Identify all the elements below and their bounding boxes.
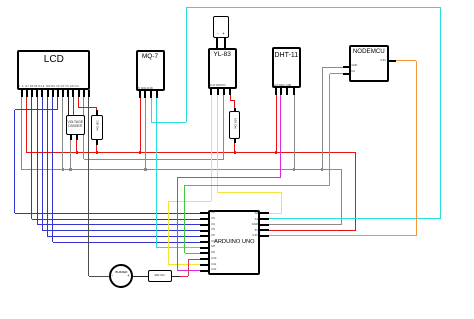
pin labels DHT-11 [274,85,292,87]
label buzzer minus [112,274,114,279]
label buzzer plus [127,274,130,279]
wire LCD pin9 gray to GND bus [62,97,63,170]
pin label Arduino A1 [245,218,258,221]
pin stub Arduino GND [260,224,269,226]
pin stub resistor 100 top [96,110,98,116]
pin stub DHT-11 pin1 [275,88,277,95]
LCD display module [17,50,90,90]
wire MQ-7 GND gray to GND bus [145,98,146,170]
label ARDUINO UNO [208,240,260,246]
label MQ-7 [136,54,165,61]
resistor 10K Ohm [229,111,241,139]
label rain plate polarity [214,32,228,37]
pin stub voltage divider left [70,134,72,140]
pin label Arduino D7 [212,241,215,244]
wire MQ-7 D0 cyan to Arduino D8 [156,98,157,248]
pin stub Arduino 3.3V [260,235,269,237]
wire DHT-11 VCC red to red bus [276,95,277,153]
pin label Arduino 3.3V [245,234,258,237]
pin stub NODEMCU GND [343,66,350,68]
resistor 220 Ohm [148,270,172,282]
label resistor 100 Ohm [96,117,99,135]
wire LCD pin8 to Arduino D2 (blue detour) [57,97,58,110]
junction 5 [275,151,277,153]
wire gray GND bus [21,97,22,170]
pin stub DHT-11 pin2 [280,88,282,95]
label resistor 10K Ohm [234,115,237,133]
pin label Arduino A0 [245,212,258,215]
pin stub MQ-7 pin3 [150,91,152,98]
pin label Arduino 5V [245,229,258,232]
YL-83 rain sensor plate [213,16,229,37]
pin stub NODEMCU 3.3V [389,60,397,62]
wire red 5V bus [26,97,27,153]
pin stub LCD pin1 [21,90,23,97]
wire resistor 100 to red bus [96,140,97,153]
wire resistor 220 crimson to Arduino D10 [172,276,180,277]
pin stub LCD pin5 [41,90,43,97]
junction 3 [139,151,141,153]
pin stub LCD pin12 [78,90,80,97]
pin stub Arduino D6 [200,235,208,237]
pin stub Arduino D9 [200,252,208,254]
pin stub rain plate 2 [224,38,226,48]
pin stub Arduino D5 [200,230,208,232]
pin stub Arduino D4 [200,224,208,226]
label voltage divider [66,120,85,128]
pin stub Arduino D11 [200,264,208,266]
pin labels MQ-7 [137,88,153,90]
pin stub LCD pin7 [52,90,54,97]
wire gray bus LCD p13 to YL-83 GND [83,97,84,159]
junction 7 [144,168,146,170]
pin stub MQ-7 pin1 [139,91,141,98]
pin label NODEMCU D4 [352,71,355,74]
pin label NODEMCU 3.3V [374,59,386,62]
pin label NODEMCU GND [352,65,358,68]
pin labels LCD [19,86,79,88]
junction 6 [69,168,71,170]
label DHT-11 [272,52,301,59]
pin label Arduino GND [245,223,258,226]
wire YL-83 D0 yellow to Arduino D11 [211,95,212,201]
label buzzer [109,271,133,274]
wire LCD data pin to Arduino D7 (blue) [52,97,53,242]
buzzer BZ1 [109,264,133,288]
wire MQ-7 VCC red to red bus [140,98,141,153]
label YL-83 [208,52,237,59]
junction 4 [234,151,236,153]
pin stub resistor 100 bottom [96,139,98,145]
wire LCD pin11 red to voltage divider [73,97,74,116]
pin stub LCD pin8 [57,90,59,97]
pin stub LCD pin10 [67,90,69,97]
wire NODEMCU D4 green to Arduino D9 [330,73,343,74]
wire DHT-11 GND gray to GND bus [294,95,295,170]
pin stub LCD pin13 [83,90,85,97]
pin stub Arduino A1 [260,218,269,220]
wire MQ-7 A0 cyan loop to Arduino A1 [151,98,152,122]
pin stub YL-83 pin4 [229,89,231,95]
wire YL-83 VCC red via resistor 10K [230,95,231,101]
pin stub LCD pin3 [31,90,33,97]
pin stub Arduino D12 [200,270,208,272]
junction 9 [321,168,323,170]
pin stub LCD pin11 [72,90,74,97]
resistor 100 Ohm [91,115,103,140]
junction 2 [96,151,98,153]
pin label Arduino D12 [212,269,217,272]
pin stub Arduino A0 [260,212,269,214]
pin label Arduino D3 [212,218,215,221]
pin label Arduino D6 [212,235,215,238]
MQ-7 gas sensor [136,50,165,92]
pin stub voltage divider right [76,134,78,140]
pin labels YL-83 [209,85,226,87]
wire LCD pin12 red to resistor 100 [78,97,79,108]
pin stub resistor 10K bottom [234,138,236,143]
pin label Arduino D11 [212,264,217,267]
wire NODEMCU 3.3V orange to Arduino 3.3V [396,60,416,61]
pin stub LCD pin4 [36,90,38,97]
pin stub YL-83 pin2 [217,89,219,95]
NODEMCU wifi module [349,45,389,82]
junction 10 [62,168,64,170]
junction 1 [76,151,78,153]
wire YL-83 A0 yellow to Arduino A0 [217,95,218,193]
wire LCD data pin to Arduino D4 (blue) [37,97,38,225]
pin stub LCD pin6 [47,90,49,97]
pin stub LCD pin2 [26,90,28,97]
ARDUINO UNO board [208,210,260,275]
label resistor 220 Ohm [148,274,172,277]
pin stub LCD pin9 [62,90,64,97]
pin label Arduino D10 [212,258,217,261]
wire LCD data pin to Arduino D5 (blue) [42,97,43,231]
wire LCD data pin to Arduino D3 (blue) [31,97,32,219]
pin stub Arduino D2 [200,212,208,214]
pin stub Arduino D3 [200,218,208,220]
wire LCD data pin to Arduino D6 (blue) [47,97,48,236]
pin stub Arduino D8 [200,247,208,249]
wire LCD pin10 to voltage divider [68,97,69,116]
pin stub DHT-11 pin4 [293,88,295,95]
pin stub NODEMCU D4 [343,73,350,75]
voltage divider [66,115,85,135]
pin stub resistor 10K top [234,108,236,113]
pin stub DHT-11 pin3 [286,88,288,95]
pin stub YL-83 pin3 [223,89,225,95]
wire voltage divider left to GND bus [70,134,71,170]
pin stub YL-83 pin1 [210,89,212,95]
wire LCD pin14 to buzzer minus [88,97,89,276]
pin label Arduino D5 [212,229,215,232]
label LCD [17,55,90,65]
pin label Arduino D2 [212,212,215,215]
wire NODEMCU GND gray to GND bus [322,67,343,68]
wire buzzer plus to resistor 220 [133,276,148,277]
pin label Arduino D4 [212,224,215,227]
pin stub MQ-7 pin4 [156,91,158,98]
wire voltage divider right to red bus [76,134,77,153]
YL-83 rain sensor module [208,48,237,89]
pin stub Arduino D7 [200,241,208,243]
pin stub MQ-7 pin2 [144,91,146,98]
pin stub rain plate 1 [216,38,218,48]
pin stub Arduino D10 [200,258,208,260]
wire DHT-11 DATA magenta to Arduino D13 [280,95,281,178]
label NODEMCU [349,49,389,55]
pin stub LCD pin14 [88,90,90,97]
pin label Arduino D8 [212,246,215,249]
DHT-11 humidity sensor [272,47,301,88]
pin stub Arduino 5V [260,229,269,231]
junction 8 [293,168,295,170]
pin label Arduino D9 [212,252,215,255]
